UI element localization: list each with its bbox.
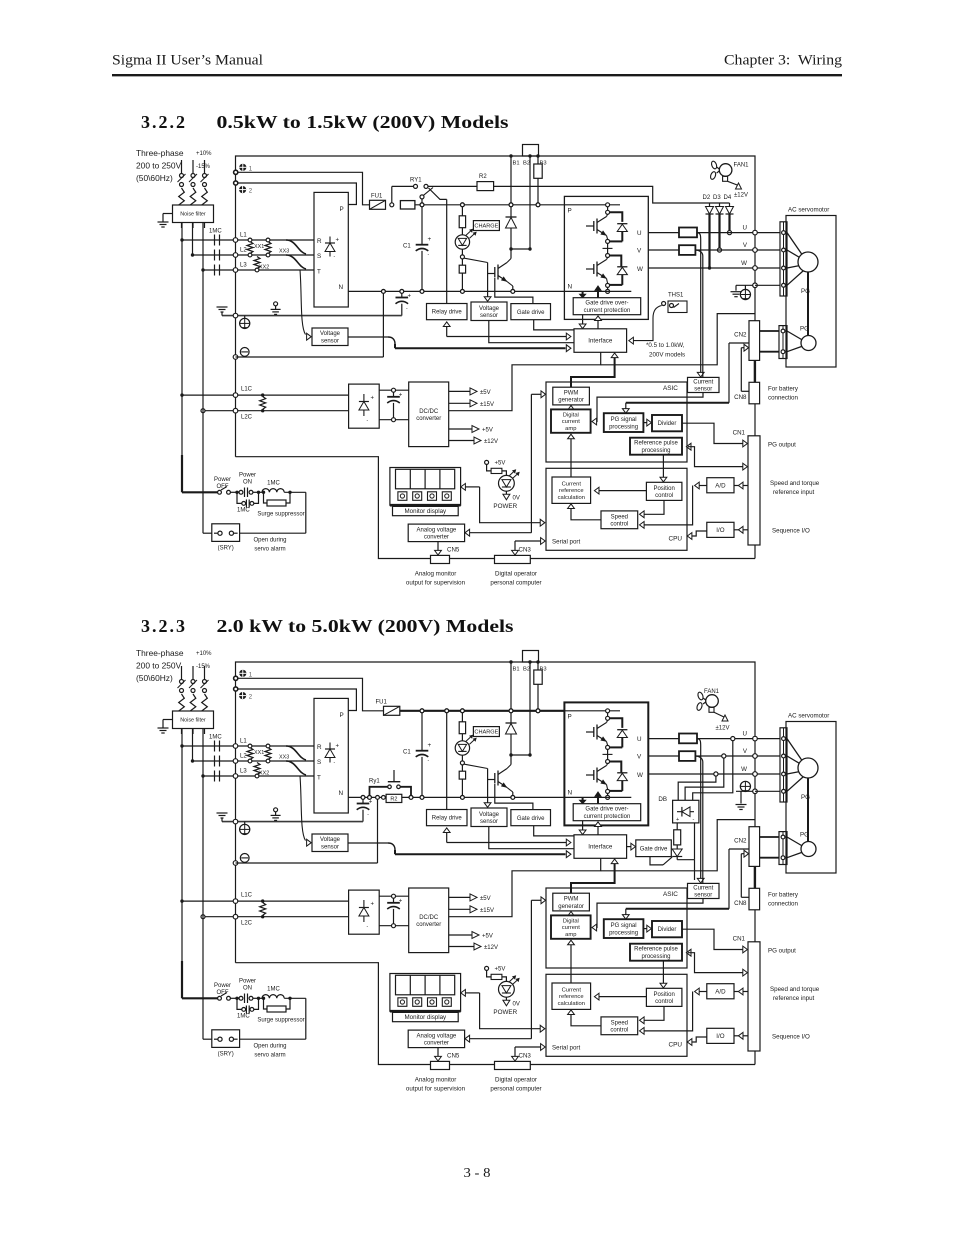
braking resistor (diagram 2) [674, 823, 681, 849]
svg-text:sensor: sensor [694, 893, 712, 899]
module P wire [564, 203, 620, 215]
svg-text:+: + [399, 393, 403, 399]
svg-text:1MC: 1MC [209, 735, 222, 741]
svg-text:Digital operator: Digital operator [495, 1077, 537, 1084]
wire minus row (diagram 2) [236, 797, 378, 863]
capacitor C1 (diagram 2) [403, 711, 432, 800]
svg-text:CN8: CN8 [734, 394, 747, 401]
wire frame to power bus [601, 314, 755, 365]
node pre-charge [390, 203, 394, 207]
svg-text:FAN1: FAN1 [734, 163, 750, 169]
servo alarm note (diagram 2) [253, 1044, 286, 1059]
terminal V (diagram 2) [743, 748, 757, 758]
voltage sensor box upper (diagram 2) [471, 808, 507, 827]
svg-text:Power: Power [214, 477, 231, 483]
wire RY1 to relay drive [446, 199, 448, 303]
wire speed to CRC (diagram 2) [568, 1010, 601, 1026]
CHARGE lamp box [473, 221, 499, 231]
svg-text:3 - 8: 3 - 8 [464, 1166, 491, 1181]
wire relay drive to interface [443, 322, 571, 340]
wire interface power (diagram 2) [449, 858, 601, 916]
inductor U [679, 228, 697, 238]
wire chassis 0V (diagram 2) [222, 821, 363, 823]
motor shaft (diagram 2) [801, 778, 810, 842]
noise filter output wires [182, 223, 203, 271]
wire position to CRC [594, 487, 646, 494]
svg-text:control: control [610, 1028, 628, 1034]
svg-text:+: + [399, 899, 403, 905]
svg-text:3.2.3: 3.2.3 [141, 616, 185, 636]
upper IGBT [586, 212, 622, 239]
svg-text:Power: Power [239, 473, 256, 479]
svg-text:XX2: XX2 [259, 771, 269, 777]
svg-text:sensor: sensor [480, 313, 498, 319]
holding contact 1MC (diagram 2) [235, 997, 260, 1020]
wire V row [648, 249, 780, 251]
svg-text:reference input: reference input [773, 995, 815, 1002]
wire P bus thick (diagram 2) [400, 709, 565, 713]
svg-text:L1C: L1C [241, 893, 253, 899]
svg-text:L2: L2 [240, 754, 247, 760]
svg-text:Noise filter: Noise filter [180, 718, 206, 724]
svg-text:For battery: For battery [768, 892, 799, 899]
wire voltage sensor to interface [489, 321, 574, 343]
svg-text:S: S [317, 253, 321, 260]
svg-text:200V models: 200V models [649, 352, 685, 359]
output ground symbols [731, 285, 751, 299]
terminal B3 (diagram 2) [536, 660, 546, 672]
svg-text:Voltage: Voltage [479, 306, 500, 312]
terminal minus (diagram 2) [233, 854, 249, 866]
svg-text:Monitor display: Monitor display [405, 508, 448, 515]
svg-text:Open during: Open during [253, 1044, 286, 1050]
fuse FU1 [370, 194, 386, 210]
CPU box [546, 468, 687, 550]
wire L1C row (diagram 2) [180, 893, 348, 903]
svg-text:Three-phase: Three-phase [136, 648, 184, 658]
svg-text:Interface: Interface [588, 338, 613, 345]
digital current amp box (diagram 2) [551, 915, 591, 938]
regen node wire [509, 247, 531, 250]
wire minus row [236, 291, 384, 357]
fuse FU1 (diagram 2) [376, 700, 400, 716]
external regen jumper [523, 145, 539, 157]
svg-text:Reference pulse: Reference pulse [634, 441, 678, 447]
chassis earth [217, 307, 228, 316]
terminal L1 (diagram 2) [233, 744, 238, 749]
varistor [260, 397, 266, 410]
surge absorber XX1 [247, 238, 264, 257]
surge absorber XX3 (diagram 2) [265, 744, 289, 763]
speed torque note [770, 480, 820, 496]
wire terminal1 to fuse [238, 172, 370, 205]
svg-text:Gate drive: Gate drive [517, 310, 545, 316]
svg-text:W: W [741, 766, 747, 773]
svg-text:processing: processing [609, 424, 638, 430]
terminal L2 [233, 253, 238, 258]
capacitor C1 [403, 205, 432, 293]
motor shaft [801, 272, 810, 336]
reference pulse processing box (diagram 2) [630, 944, 682, 961]
lower flywheel diode [609, 267, 628, 285]
motor power connector (diagram 2) [780, 728, 787, 802]
wire gate drive 2 to thyristor (diagram 2) [650, 857, 663, 865]
chassis earth (diagram 2) [217, 813, 228, 822]
noise filter [173, 205, 214, 223]
wire converter to CN5 (diagram 2) [435, 1048, 460, 1061]
svg-text:PG: PG [801, 794, 810, 801]
functional earth [271, 302, 281, 315]
frame link CN2 CN8 [754, 360, 756, 382]
analog voltage converter box [408, 524, 464, 542]
svg-text:Sequence I/O: Sequence I/O [772, 528, 810, 535]
charge LED [455, 229, 476, 249]
terminal L2 (diagram 2) [233, 759, 238, 764]
wire L2C row [201, 409, 349, 421]
wire CN8 to CN2 (diagram 2) [741, 850, 749, 897]
svg-text:+: + [336, 744, 340, 750]
terminal 2 [234, 181, 253, 195]
svg-text:Speed: Speed [611, 514, 628, 520]
DB tap W (diagram 2) [678, 772, 718, 800]
gate drive over-current protection (diagram 2) [573, 804, 641, 821]
svg-text:output for supervision: output for supervision [406, 1086, 466, 1093]
fan FAN1 [710, 160, 750, 181]
svg-text:Current: Current [562, 481, 582, 487]
svg-text:(50\60Hz): (50\60Hz) [136, 673, 173, 683]
svg-text:+: + [369, 800, 373, 806]
CPU box (diagram 2) [546, 974, 687, 1056]
svg-text:amp: amp [565, 932, 576, 938]
gate drive box [511, 304, 551, 320]
wire CN1 to RPP (diagram 2) [686, 949, 747, 976]
wire IO to CPU [687, 531, 707, 539]
wire RPP to position control [660, 455, 667, 482]
three-phase supply label (diagram 2) [136, 648, 212, 683]
external regen jumper (diagram 2) [523, 651, 539, 663]
braking unit DB (diagram 2) [658, 796, 699, 823]
wire U phase sense [697, 233, 704, 377]
svg-text:connection: connection [768, 395, 798, 402]
svg-text:servo alarm: servo alarm [254, 547, 285, 553]
battery note (diagram 2) [768, 892, 799, 908]
svg-text:Analog voltage: Analog voltage [417, 1033, 457, 1039]
svg-text:Divider: Divider [658, 421, 677, 427]
svg-text:R2: R2 [390, 796, 397, 802]
regen resistor internal [534, 156, 542, 205]
svg-text:ON: ON [243, 986, 252, 992]
bus L3 down (diagram 2) [203, 776, 212, 1039]
output +-15V (diagram 2) [449, 906, 494, 914]
note 0.5 to 1.0kW [646, 342, 685, 359]
svg-text:N: N [568, 790, 573, 797]
connector CN3 [495, 555, 531, 563]
IGBT power module [564, 196, 648, 319]
charge node (diagram 2) [460, 755, 464, 765]
wire N bus [348, 290, 564, 294]
bus L1 down [181, 240, 183, 492]
inductor U (diagram 2) [679, 734, 697, 744]
wire L3 row [201, 263, 314, 272]
svg-text:Digital: Digital [563, 918, 579, 924]
svg-text:N: N [568, 284, 573, 291]
wire tap to lower sensor (diagram 2) [300, 776, 311, 846]
wire rectifier P to terminal2 (diagram 2) [238, 689, 357, 711]
alarm contact SRY (diagram 2) [212, 1030, 240, 1058]
svg-text:A/D: A/D [715, 482, 726, 489]
relay drive box [427, 304, 468, 320]
wire lower sensor to interface (diagram 2) [348, 843, 571, 858]
surge absorber XX1 (diagram 2) [247, 744, 264, 763]
terminal B2 [523, 154, 532, 166]
wire PG signal to ASIC [622, 343, 749, 413]
svg-text:*0.5 to 1.0kW,: *0.5 to 1.0kW, [646, 342, 685, 349]
power off switch (diagram 2) [182, 983, 231, 1000]
control rectifier [349, 384, 380, 428]
svg-text:CN8: CN8 [734, 900, 747, 907]
control rectifier (diagram 2) [349, 890, 380, 934]
svg-text:2.0 kW to 5.0kW (200V) Models: 2.0 kW to 5.0kW (200V) Models [217, 616, 514, 637]
charge resistor upper (diagram 2) [459, 711, 465, 741]
svg-text:D4: D4 [724, 195, 732, 201]
svg-text:C1: C1 [403, 244, 411, 250]
A/D box [707, 478, 734, 493]
svg-text:sensor: sensor [321, 845, 339, 851]
svg-text:W: W [637, 772, 643, 779]
wire interface to module [595, 316, 602, 329]
module gate arrow (diagram 2) [595, 792, 601, 804]
terminal L1C (diagram 2) [233, 899, 238, 904]
wire PG signal to ASIC (diagram 2) [622, 849, 749, 919]
svg-text:Gate drive over-: Gate drive over- [585, 807, 628, 813]
power on switch [231, 473, 263, 498]
svg-text:Speed and torque: Speed and torque [770, 480, 820, 487]
svg-text:CHARGE: CHARGE [474, 730, 498, 736]
input switch and line legs [178, 160, 209, 228]
wire interface to module (diagram 2) [595, 822, 602, 835]
terminal 1 (diagram 2) [234, 670, 253, 681]
junction nodes (diagram 2) [361, 709, 540, 799]
svg-text:+: + [428, 236, 432, 243]
svg-text:W: W [637, 266, 643, 273]
svg-text:converter: converter [424, 1041, 449, 1047]
DB tap U (diagram 2) [693, 737, 735, 801]
wire CN1 to AD (diagram 2) [734, 988, 748, 995]
svg-text:Chapter 3: Wiring: Chapter 3: Wiring [724, 53, 843, 69]
output ground symbols (diagram 2) [736, 781, 751, 809]
terminal L2C [233, 408, 238, 413]
wire CPU to monitor [461, 484, 545, 527]
input switch and line legs (diagram 2) [178, 666, 209, 734]
wire V row (diagram 2) [648, 755, 780, 757]
wire AD to CPU (diagram 2) [640, 988, 707, 1034]
svg-text:(50\60Hz): (50\60Hz) [136, 173, 173, 183]
svg-text:L1C: L1C [241, 387, 253, 393]
svg-text:connection: connection [768, 901, 798, 908]
rectifier bridge (diagram 2) [314, 698, 348, 813]
wire frame to power bus (diagram 2) [601, 820, 755, 871]
connector CN3 (diagram 2) [495, 1061, 531, 1069]
wire B1 branch [510, 156, 512, 217]
wire relay drive to interface (diagram 2) [443, 828, 571, 846]
svg-text:Interface: Interface [588, 844, 613, 851]
svg-text:PWM: PWM [564, 391, 579, 397]
svg-text:Analog voltage: Analog voltage [417, 527, 457, 533]
svg-text:reference: reference [559, 488, 584, 494]
svg-text:U: U [637, 736, 642, 743]
svg-text:B1: B1 [513, 667, 520, 673]
battery note [768, 386, 799, 402]
svg-text:personal computer: personal computer [490, 1086, 541, 1093]
module sense arrow (diagram 2) [580, 797, 586, 803]
smoothing capacitor (diagram 2) [357, 797, 373, 821]
svg-text:P: P [340, 712, 344, 719]
gate drive 2 box (diagram 2) [636, 840, 672, 857]
wire voltage sensor tap [484, 263, 491, 302]
position control box (diagram 2) [646, 988, 682, 1006]
svg-text:1MC: 1MC [267, 481, 280, 487]
wire CN1 to RPP [686, 443, 747, 470]
junction nodes [382, 203, 540, 293]
terminal B3 [536, 154, 546, 166]
svg-text:ASIC: ASIC [663, 385, 678, 392]
current reference calculation box [552, 477, 591, 503]
svg-text:generator: generator [558, 904, 584, 910]
relay RY1 [392, 178, 477, 205]
svg-text:CN1: CN1 [733, 936, 746, 943]
terminal PE [233, 313, 250, 328]
svg-text:calculation: calculation [558, 495, 585, 501]
PG signal processing box (diagram 2) [604, 919, 644, 938]
svg-text:PG output: PG output [768, 442, 796, 449]
A/D box (diagram 2) [707, 984, 734, 999]
svg-text:sensor: sensor [694, 387, 712, 393]
alarm contact SRY [212, 524, 240, 552]
wire current amp to CRC [568, 434, 575, 477]
diode D2 [703, 195, 714, 270]
wire B2 branch (diagram 2) [529, 662, 531, 755]
wire W row [648, 267, 780, 269]
wire ASIC supply (diagram 2) [531, 897, 545, 1039]
svg-text:±12V: ±12V [734, 193, 748, 199]
svg-text:Surge suppressor: Surge suppressor [257, 1018, 304, 1024]
svg-text:THS1: THS1 [668, 293, 684, 299]
arrow current amp to PWM [568, 406, 575, 411]
terminal B1 (diagram 2) [509, 660, 519, 672]
svg-text:Gate drive over-: Gate drive over- [585, 301, 628, 307]
module gate arrow [595, 286, 601, 298]
svg-text:T: T [317, 775, 321, 782]
svg-text:PG output: PG output [768, 948, 796, 955]
svg-text:+5V: +5V [482, 934, 493, 940]
svg-text:POWER: POWER [493, 503, 517, 510]
analog monitor note (diagram 2) [406, 1077, 466, 1093]
svg-text:B2: B2 [523, 667, 530, 673]
svg-text:output for supervision: output for supervision [406, 580, 466, 587]
connector CN8 (diagram 2) [734, 888, 759, 910]
svg-text:L1: L1 [240, 233, 247, 239]
phase swap wires (diagram 2) [286, 746, 306, 775]
ASIC box [546, 382, 687, 462]
svg-text:DC/DC: DC/DC [419, 915, 439, 921]
wire L2 row (diagram 2) [191, 754, 314, 763]
svg-text:POWER: POWER [493, 1009, 517, 1016]
svg-text:converter: converter [416, 922, 441, 928]
speed control box (diagram 2) [601, 1017, 638, 1035]
fan supply +-12V (diagram 2) [714, 712, 729, 731]
wire relay drive feed (diagram 2) [445, 709, 449, 810]
wire W row (diagram 2) [648, 773, 780, 775]
wire position to CRC (diagram 2) [594, 993, 646, 1000]
relay Ry1 (diagram 2) [368, 770, 413, 799]
encoder PG (diagram 2) [800, 832, 816, 857]
wire P bus [415, 203, 565, 207]
svg-text:U: U [743, 225, 747, 232]
module P wire (diagram 2) [564, 709, 620, 721]
AC servomotor box (diagram 2) [786, 713, 836, 874]
connector CN5 (diagram 2) [431, 1061, 450, 1069]
frame link CN2 CN8 (diagram 2) [754, 866, 756, 888]
svg-text:±12V: ±12V [484, 945, 498, 951]
svg-text:+: + [428, 742, 432, 749]
wire AD to CPU [640, 482, 707, 528]
svg-text:servo alarm: servo alarm [254, 1053, 285, 1059]
svg-text:processing: processing [641, 954, 670, 960]
wire CN1 to AD [734, 482, 748, 489]
svg-text:200 to 250V: 200 to 250V [136, 161, 182, 171]
svg-text:AC servomotor: AC servomotor [788, 207, 829, 214]
svg-text:(SRY): (SRY) [218, 1052, 234, 1058]
inductor V [679, 245, 695, 255]
svg-text:Power: Power [214, 983, 231, 989]
svg-text:Surge suppressor: Surge suppressor [257, 512, 304, 518]
svg-text:PG: PG [801, 288, 810, 295]
PG connector (diagram 2) [779, 832, 787, 865]
svg-text:1MC: 1MC [237, 1014, 250, 1020]
svg-text:L1: L1 [240, 739, 247, 745]
upper flywheel diode (diagram 2) [609, 730, 628, 748]
bus L3 down [203, 270, 212, 533]
svg-text:±5V: ±5V [480, 896, 491, 902]
svg-text:Three-phase: Three-phase [136, 148, 184, 158]
svg-text:For battery: For battery [768, 386, 799, 393]
PG connector [779, 326, 787, 359]
lower flywheel diode (diagram 2) [609, 773, 628, 791]
svg-text:1MC: 1MC [237, 508, 250, 514]
wire interface to gate drive 2 (diagram 2) [627, 843, 636, 850]
wire L1 row (diagram 2) [180, 739, 314, 748]
terminal L3 (diagram 2) [233, 774, 238, 779]
svg-text:Gate drive: Gate drive [517, 816, 545, 822]
svg-text:T: T [317, 269, 321, 276]
svg-text:Noise filter: Noise filter [180, 212, 206, 218]
terminal L2C (diagram 2) [233, 914, 238, 919]
wire N bus (diagram 2) [348, 796, 564, 800]
svg-text:+5V: +5V [495, 461, 506, 467]
interface box [574, 329, 627, 353]
svg-text:Position: Position [653, 486, 674, 492]
PG connector wires [760, 331, 802, 352]
svg-text:3.2.2: 3.2.2 [141, 112, 185, 132]
current reference calculation box (diagram 2) [552, 983, 591, 1009]
surge suppressor (diagram 2) [257, 997, 304, 1024]
svg-text:ON: ON [243, 480, 252, 486]
wire speed to CRC [568, 504, 601, 520]
svg-text:R: R [317, 238, 322, 245]
svg-text:D2: D2 [703, 195, 711, 201]
current sensor box (diagram 2) [688, 883, 720, 898]
wire tap to lower sensor [300, 270, 311, 340]
